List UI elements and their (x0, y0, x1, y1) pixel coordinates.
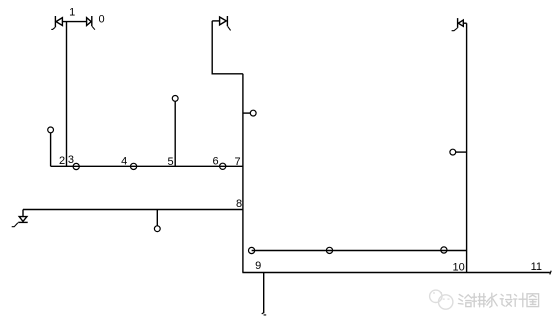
svg-text:3: 3 (68, 154, 74, 166)
svg-text:1: 1 (69, 7, 75, 19)
svg-text:8: 8 (236, 198, 242, 210)
svg-text:9: 9 (255, 260, 261, 272)
svg-text:11: 11 (531, 261, 542, 273)
svg-text:5: 5 (167, 156, 173, 168)
svg-text:4: 4 (121, 155, 127, 167)
svg-text:2: 2 (59, 155, 65, 167)
svg-text:6: 6 (213, 155, 219, 167)
svg-text:10: 10 (452, 261, 464, 273)
svg-text:0: 0 (98, 13, 104, 25)
svg-text:7: 7 (234, 156, 240, 168)
